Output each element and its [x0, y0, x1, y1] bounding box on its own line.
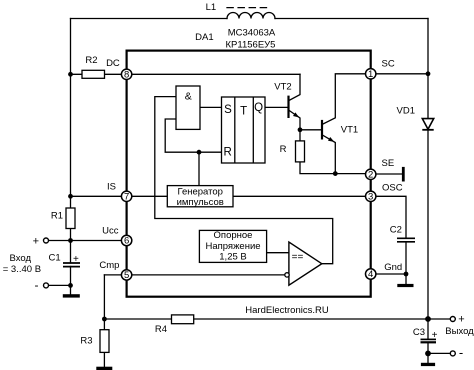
svg-text:7: 7 [124, 191, 129, 202]
svg-text:-: - [459, 345, 463, 360]
svg-text:SE: SE [382, 158, 395, 169]
svg-text:3: 3 [368, 191, 373, 202]
svg-text:L1: L1 [206, 2, 217, 13]
svg-text:+: + [458, 314, 464, 326]
svg-text:Опорное: Опорное [214, 230, 253, 241]
svg-text:Ucc: Ucc [102, 226, 119, 237]
svg-text:1,25 В: 1,25 В [219, 252, 246, 263]
svg-text:==: == [292, 252, 304, 263]
svg-text:8: 8 [124, 70, 129, 81]
svg-text:2: 2 [368, 169, 373, 180]
svg-text:-: - [35, 278, 39, 292]
svg-text:DA1: DA1 [195, 32, 213, 43]
svg-text:Генератор: Генератор [177, 186, 223, 197]
svg-text:S: S [224, 104, 232, 116]
svg-text:&: & [185, 90, 192, 102]
svg-text:КР1156ЕУ5: КР1156ЕУ5 [226, 40, 276, 51]
svg-text:+: + [33, 235, 39, 247]
svg-text:MC34063A: MC34063A [228, 27, 276, 38]
svg-text:VT1: VT1 [341, 124, 358, 135]
svg-text:C1: C1 [49, 252, 61, 263]
svg-text:IS: IS [107, 181, 116, 192]
svg-text:R: R [223, 146, 231, 158]
svg-text:+: + [73, 254, 79, 265]
svg-text:C2: C2 [390, 224, 402, 235]
svg-text:VD1: VD1 [397, 105, 415, 116]
svg-text:Gnd: Gnd [384, 262, 402, 273]
svg-text:R: R [280, 144, 287, 155]
svg-text:1: 1 [368, 69, 373, 80]
svg-text:4: 4 [368, 269, 373, 280]
svg-text:+: + [432, 330, 438, 341]
svg-text:Вход: Вход [10, 253, 32, 264]
svg-text:импульсов: импульсов [177, 197, 224, 208]
svg-text:DC: DC [106, 58, 120, 69]
svg-text:SC: SC [382, 58, 395, 69]
svg-text:R3: R3 [80, 336, 92, 347]
svg-text:HardElectronics.RU: HardElectronics.RU [245, 305, 329, 316]
svg-text:R2: R2 [85, 55, 97, 66]
svg-text:Напряжение: Напряжение [205, 241, 260, 252]
svg-text:T: T [240, 106, 247, 118]
svg-text:Q: Q [254, 102, 263, 114]
svg-text:OSC: OSC [382, 183, 403, 194]
svg-text:= 3..40 В: = 3..40 В [3, 264, 41, 275]
svg-text:Cmp: Cmp [99, 260, 119, 271]
svg-text:R4: R4 [155, 324, 167, 335]
svg-text:VT2: VT2 [274, 81, 291, 92]
svg-text:C3: C3 [413, 327, 425, 338]
svg-text:R1: R1 [51, 211, 63, 222]
svg-text:5: 5 [124, 270, 129, 281]
svg-text:6: 6 [124, 236, 129, 247]
svg-text:Выход: Выход [445, 326, 474, 337]
